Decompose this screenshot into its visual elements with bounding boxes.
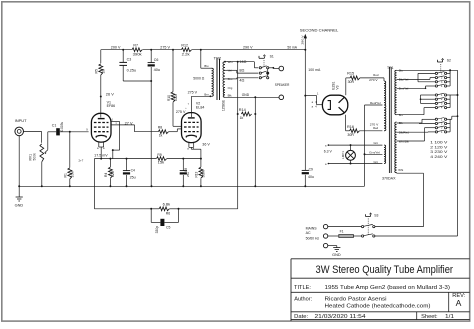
capacitor C3 0.25u xyxy=(119,49,151,81)
label 5000 ohm xyxy=(193,76,204,80)
svg-text:27 V: 27 V xyxy=(125,121,133,125)
svg-text:R4: R4 xyxy=(104,173,108,177)
svg-text:V3: V3 xyxy=(335,85,339,89)
svg-text:A: A xyxy=(456,298,462,308)
resistor R6 6.8k xyxy=(150,207,179,211)
label V2 EL84 xyxy=(196,102,205,110)
svg-text:TR1: TR1 xyxy=(387,66,394,70)
S2 bank right commons xyxy=(447,70,450,132)
potentiometer RV1 500k xyxy=(40,132,56,187)
svg-text:Grn/Yel: Grn/Yel xyxy=(369,151,380,155)
resistor R12 2.2k xyxy=(181,48,192,52)
svg-text:500k: 500k xyxy=(32,153,36,161)
resistor R5 1M xyxy=(99,50,103,97)
wire Blk tap to bank3 xyxy=(397,119,436,123)
svg-text:R1: R1 xyxy=(64,173,68,177)
label LMP1 xyxy=(341,151,345,159)
svg-text:290 V: 290 V xyxy=(243,45,253,50)
label R12 2.2k xyxy=(181,44,189,57)
svg-text:200 V: 200 V xyxy=(111,45,121,50)
heater wire top Grn xyxy=(328,141,383,146)
wire bank2 feeds xyxy=(420,95,436,103)
label TR2 xyxy=(214,56,222,60)
wire bank3 common xyxy=(447,115,459,119)
bus junction dots xyxy=(18,185,306,187)
svg-text:16Ω: 16Ω xyxy=(239,60,246,64)
title text xyxy=(316,264,454,276)
wire R15 to TR1 xyxy=(360,78,384,81)
svg-text:6.3 V: 6.3 V xyxy=(324,150,333,154)
V1 screen wire to R8 line xyxy=(111,121,135,131)
wire to V3 cathode xyxy=(305,91,322,104)
svg-text:36 V: 36 V xyxy=(202,142,210,146)
wire WhtBlk tap to bank3 xyxy=(397,124,436,142)
wire BluYel tap to bank1 xyxy=(397,78,436,80)
output transformer TR2 primary xyxy=(200,49,214,98)
label Red/Yel center tap xyxy=(370,101,381,105)
V2 anode wire to TR2 xyxy=(192,96,212,117)
svg-text:2+7: 2+7 xyxy=(79,159,84,163)
svg-text:SECOND CHANNEL: SECOND CHANNEL xyxy=(300,27,339,32)
wire speaker gnd to bus xyxy=(254,97,256,186)
svg-text:Brn: Brn xyxy=(204,93,209,97)
label R6 6.8k xyxy=(163,203,171,216)
label 36 V xyxy=(202,142,210,146)
switch S2 symbol xyxy=(437,58,451,62)
svg-text:4 240 V: 4 240 V xyxy=(430,155,448,159)
V1 pin number marks xyxy=(112,119,118,125)
wire BrnYel tap to bank1 xyxy=(397,86,436,89)
svg-text:390k: 390k xyxy=(133,52,142,56)
V3 pin marks xyxy=(312,100,318,108)
switch S2 link dashes xyxy=(440,64,442,72)
wire RedYel center tap to ground xyxy=(364,105,383,186)
TITLE row xyxy=(294,285,450,291)
sheet cell xyxy=(421,314,454,320)
switch S1 contacts xyxy=(259,66,279,79)
svg-text:R6: R6 xyxy=(166,211,170,215)
svg-text:Author:: Author: xyxy=(294,296,312,302)
svg-text:C6: C6 xyxy=(154,58,159,62)
label 290V rotated at arrow xyxy=(301,35,305,44)
svg-text:EF86: EF86 xyxy=(107,104,116,108)
label R16 30R xyxy=(347,125,354,137)
svg-text:370DAX: 370DAX xyxy=(382,176,396,180)
svg-text:R15: R15 xyxy=(347,72,354,76)
svg-text:275 V: 275 V xyxy=(188,90,198,94)
svg-text:21/03/2020 11:54: 21/03/2020 11:54 xyxy=(315,314,366,320)
V2 pin number mark xyxy=(185,103,189,110)
label R5 1M xyxy=(95,69,106,74)
svg-text:4Ω: 4Ω xyxy=(239,78,244,82)
wire GrnYel center tap xyxy=(365,151,383,155)
svg-text:275 V: 275 V xyxy=(176,110,186,114)
wire R8 to V2 grid xyxy=(169,129,182,132)
svg-text:Sheet:: Sheet: xyxy=(421,314,438,320)
label C9 40u xyxy=(308,168,314,179)
svg-text:GND: GND xyxy=(15,204,24,208)
author row xyxy=(294,296,430,309)
label R8 1k xyxy=(158,126,163,138)
label 6.3 V xyxy=(324,150,333,154)
ground bus wire xyxy=(19,185,365,187)
svg-text:Org: Org xyxy=(228,86,233,90)
svg-text:R8: R8 xyxy=(158,126,162,130)
wire bank1 row1 left feed xyxy=(418,73,435,81)
svg-text:5000 Ω: 5000 Ω xyxy=(193,76,204,80)
wire R6 line to V1 cathode xyxy=(94,159,151,209)
wire bank2 common to mains line xyxy=(447,94,459,96)
svg-text:R9: R9 xyxy=(157,153,161,157)
heater wire bottom Grn xyxy=(328,160,383,165)
label R14 1k xyxy=(239,108,246,120)
switch S3 symbol xyxy=(365,213,378,217)
capacitor C9 40u xyxy=(302,170,309,186)
V3 plate wires xyxy=(346,78,350,131)
V1 heater pin marks xyxy=(79,147,106,163)
svg-text:GND: GND xyxy=(242,93,250,97)
capacitor C4 25u xyxy=(123,159,130,187)
svg-text:F1: F1 xyxy=(340,230,344,234)
svg-text:25u: 25u xyxy=(186,172,190,177)
S2 bank 1 contacts xyxy=(435,72,446,88)
resistor R4 82R xyxy=(109,159,113,187)
svg-text:290 V: 290 V xyxy=(301,35,305,44)
V2 heater pin marks xyxy=(187,148,195,151)
V1 grid wire pin 9 xyxy=(86,127,88,131)
svg-text:Date:: Date: xyxy=(294,314,308,320)
wire to V1 top xyxy=(100,97,102,118)
svg-text:Ricardo Pastor Asensi: Ricardo Pastor Asensi xyxy=(325,296,387,302)
fuse F1 xyxy=(339,235,362,238)
svg-text:S2: S2 xyxy=(447,58,451,62)
resistor R14 1k xyxy=(241,112,256,116)
svg-text:100k: 100k xyxy=(174,94,178,101)
svg-text:40u: 40u xyxy=(154,68,161,72)
label 290 V xyxy=(243,45,253,50)
wire Blu tap to mains select xyxy=(397,69,458,71)
wire 8 ohm tap xyxy=(225,70,258,73)
svg-text:1/1: 1/1 xyxy=(445,314,454,320)
capacitor C8 25u xyxy=(180,159,187,187)
wire feedback down to R6 line xyxy=(179,114,238,209)
TR1 primary winding lower xyxy=(395,122,397,173)
svg-text:R10: R10 xyxy=(167,95,171,101)
resistor R15 30R xyxy=(350,76,360,80)
svg-text:C3: C3 xyxy=(127,58,132,62)
svg-text:R16: R16 xyxy=(347,125,354,129)
wire S2 bank1 common xyxy=(447,70,450,73)
label 200 V xyxy=(111,45,121,50)
svg-text:25u: 25u xyxy=(130,176,136,180)
wire 4 ohm tap xyxy=(225,78,258,79)
V2 cathode wire 36V xyxy=(189,143,201,159)
voltage selector table xyxy=(430,141,448,159)
resistor R13 560R xyxy=(199,159,203,187)
svg-text:Wht: Wht xyxy=(398,168,403,172)
svg-text:125BSE: 125BSE xyxy=(221,99,225,111)
svg-text:1k: 1k xyxy=(159,134,163,138)
svg-text:Grn: Grn xyxy=(374,160,379,164)
wire Brn tap to bank2 xyxy=(397,108,436,115)
svg-text:3 230 V: 3 230 V xyxy=(430,150,448,154)
switch S1 link dashes xyxy=(263,60,265,66)
svg-text:0.25u: 0.25u xyxy=(127,68,137,72)
wire R16 to TR1 xyxy=(359,130,382,132)
label R9 15k xyxy=(157,153,164,164)
svg-text:R13: R13 xyxy=(195,171,199,177)
wire V1 to R8 xyxy=(135,131,159,133)
resistor R1 10M xyxy=(68,132,72,187)
svg-text:330p: 330p xyxy=(155,226,159,234)
speaker gnd connector xyxy=(279,95,284,100)
TR2 secondary tap labels xyxy=(228,60,233,98)
svg-text:C5: C5 xyxy=(166,226,170,230)
svg-text:275 V: 275 V xyxy=(160,45,170,50)
TR1 primary tap labels xyxy=(398,69,409,173)
svg-text:C8: C8 xyxy=(184,168,188,172)
svg-text:40u: 40u xyxy=(308,175,314,179)
wire S3 pole2 to mains select vertical xyxy=(375,70,458,236)
rectifier V3 EZ81 tube xyxy=(322,95,347,115)
switch S3 link dashes xyxy=(367,218,369,234)
svg-text:270 V: 270 V xyxy=(369,78,378,82)
date row xyxy=(294,314,365,320)
svg-text:S1: S1 xyxy=(270,55,274,59)
svg-text:15k: 15k xyxy=(158,160,165,164)
svg-text:Blk/Red: Blk/Red xyxy=(399,131,409,135)
resistor R10 100k screen feed xyxy=(171,49,182,127)
svg-text:Wht/Blk: Wht/Blk xyxy=(399,139,410,143)
svg-text:Blu: Blu xyxy=(204,64,208,68)
label 4 ohm xyxy=(239,78,244,82)
label R15 30R xyxy=(347,72,354,85)
title block outline xyxy=(291,259,470,321)
label 17.5 mV xyxy=(94,154,108,158)
S2 bank 3 contacts xyxy=(435,118,446,134)
wire 16ohm to R14 xyxy=(237,62,239,115)
label Blu Brn primary xyxy=(204,64,209,97)
label 50 mA xyxy=(287,45,297,50)
label 275 V at R10 xyxy=(188,90,198,94)
svg-text:1 100 V: 1 100 V xyxy=(430,141,448,145)
svg-text:0.005u: 0.005u xyxy=(60,122,64,132)
svg-text:LMP1: LMP1 xyxy=(341,151,345,159)
V1 anode wire 27V xyxy=(111,122,120,159)
switch S3 pole 1 xyxy=(362,224,375,227)
HT rail wire 200V-275V-290V xyxy=(101,49,305,51)
TR2 core xyxy=(217,59,220,101)
ground symbol GND left xyxy=(15,186,24,207)
capacitor C6 40u xyxy=(148,49,155,187)
label RV1 500k xyxy=(29,153,37,161)
V1 cathode wires xyxy=(99,142,104,159)
svg-text:17.5 mV: 17.5 mV xyxy=(94,154,108,158)
input connector J1 xyxy=(15,127,42,186)
svg-text:EL84: EL84 xyxy=(196,106,205,110)
svg-text:C4: C4 xyxy=(131,169,135,173)
lamp LMP1 xyxy=(346,145,356,163)
label R1 10M xyxy=(64,171,75,178)
svg-text:50/60 Hz: 50/60 Hz xyxy=(306,237,320,241)
label SECOND CHANNEL xyxy=(300,27,339,32)
resistor R16 30R xyxy=(350,129,360,133)
svg-text:Red: Red xyxy=(373,126,379,130)
svg-text:26 V: 26 V xyxy=(106,92,114,96)
label 370DAX xyxy=(382,176,396,180)
heater pin marks xyxy=(325,144,327,165)
capacitor C1 0.005u xyxy=(56,128,70,135)
label C1 xyxy=(52,122,64,132)
TR2 secondary winding xyxy=(223,61,226,98)
svg-text:Grn: Grn xyxy=(374,141,379,145)
rev cell xyxy=(452,293,465,308)
svg-text:INPUT: INPUT xyxy=(15,118,28,123)
wire 290V down to C9 xyxy=(304,50,306,171)
svg-text:1k: 1k xyxy=(240,116,244,120)
label 16 ohm xyxy=(239,60,246,64)
label V1 EF86 xyxy=(107,100,116,108)
label C5 330p xyxy=(155,226,171,234)
svg-text:1M: 1M xyxy=(102,69,106,74)
label C8 25u xyxy=(184,168,190,177)
svg-text:SPEAKER: SPEAKER xyxy=(275,83,290,87)
svg-text:2 120 V: 2 120 V xyxy=(430,145,448,149)
wire S3 pole1 to TR1 Wht xyxy=(375,173,424,227)
svg-text:50 mA: 50 mA xyxy=(287,45,297,50)
svg-text:6.8k: 6.8k xyxy=(163,203,171,207)
label F1 xyxy=(340,230,344,234)
svg-text:2.2k: 2.2k xyxy=(182,52,190,56)
S2 bank 2 contacts xyxy=(435,93,446,109)
mains earth symbol xyxy=(332,246,341,258)
svg-text:TITLE:: TITLE: xyxy=(294,285,311,291)
capacitor C5 330p xyxy=(151,209,178,226)
TR1 core xyxy=(389,67,391,173)
power transformer TR1 label xyxy=(387,66,394,70)
svg-text:R5: R5 xyxy=(95,69,99,73)
node 26V xyxy=(100,92,114,97)
mains connector E xyxy=(323,243,336,247)
label 8 ohm xyxy=(239,69,244,73)
svg-text:R14: R14 xyxy=(239,108,246,112)
svg-text:Red/Yel: Red/Yel xyxy=(370,101,381,105)
label V3 EZ81 xyxy=(331,81,339,89)
mains connector L xyxy=(323,224,361,228)
label MAINS AC 50/60 Hz xyxy=(306,226,320,240)
label R10 100k xyxy=(167,94,178,101)
resistor R8 1k xyxy=(158,130,168,134)
svg-text:3W Stereo Quality Tube Amplifi: 3W Stereo Quality Tube Amplifier xyxy=(316,264,454,276)
label 125BSE xyxy=(221,99,225,111)
svg-text:100 mA: 100 mA xyxy=(308,68,320,72)
wire input to RV1 xyxy=(41,131,43,142)
label SPEAKER xyxy=(275,83,290,87)
second channel feed arrow xyxy=(304,34,307,51)
node after C1 xyxy=(69,131,89,133)
svg-text:S3: S3 xyxy=(374,213,378,217)
speaker plus connector xyxy=(279,66,284,71)
label R4 82R xyxy=(104,170,115,177)
svg-text:30R: 30R xyxy=(347,133,354,137)
svg-text:1955 Tube Amp Gen2 (based on M: 1955 Tube Amp Gen2 (based on Mullard 3-3… xyxy=(325,285,451,291)
wire speaker ground Blk xyxy=(225,93,279,98)
label R7 390k xyxy=(133,44,142,57)
svg-text:C9: C9 xyxy=(309,168,313,172)
label Red 270V top xyxy=(369,73,379,82)
power pentode V2 EL84 tube xyxy=(182,113,202,143)
triode-pentode V1 EF86 tube xyxy=(91,113,111,142)
svg-text:8Ω: 8Ω xyxy=(239,69,244,73)
svg-text:R7: R7 xyxy=(133,44,138,48)
switch S3 pole 2 xyxy=(362,234,375,237)
label 275 V at V2 screen xyxy=(176,110,186,114)
svg-text:Red: Red xyxy=(373,73,379,77)
TR1 heater winding xyxy=(384,145,386,163)
label 275 V xyxy=(160,45,170,50)
mains connector N xyxy=(323,234,338,238)
svg-text:MAINS: MAINS xyxy=(306,226,318,230)
TR1 HT secondary winding xyxy=(384,81,386,131)
svg-text:30R: 30R xyxy=(348,80,355,84)
label 270V Red bottom xyxy=(370,122,379,130)
label INPUT xyxy=(15,118,28,123)
label C3 0.25u xyxy=(127,58,137,73)
svg-text:82R: 82R xyxy=(111,170,115,177)
svg-text:R12: R12 xyxy=(181,44,188,48)
wire cathode bias line xyxy=(94,158,201,160)
label C6 40u xyxy=(154,58,161,72)
switch S1 selector symbol xyxy=(259,55,274,59)
svg-text:GND: GND xyxy=(332,253,341,257)
label R13 560R xyxy=(195,169,206,177)
resistor R9 15k xyxy=(157,157,167,161)
label 100 mA xyxy=(308,68,320,72)
svg-text:C1: C1 xyxy=(52,124,57,128)
svg-text:10M: 10M xyxy=(71,171,75,178)
wire BlkRed tap to bank3 xyxy=(397,131,436,133)
svg-text:560R: 560R xyxy=(202,169,206,177)
TR1 primary winding upper xyxy=(395,70,397,114)
label C4 25u xyxy=(130,169,136,180)
wire 16 ohm tap xyxy=(225,61,258,68)
svg-text:AC: AC xyxy=(306,231,311,235)
resistor R7 390k xyxy=(132,48,143,52)
svg-text:Heated Cathode (heatedcathode.: Heated Cathode (heatedcathode.com) xyxy=(325,303,431,309)
